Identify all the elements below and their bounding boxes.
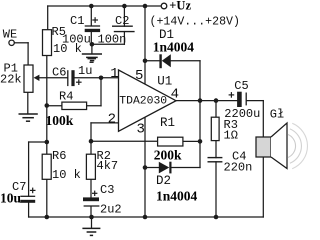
svg-text:10u: 10u (0, 190, 22, 205)
ground under P1 (19, 92, 38, 121)
svg-text:1n4004: 1n4004 (156, 188, 198, 203)
wire R1 right lead (183, 140, 200, 142)
junction inverting node (89, 139, 94, 144)
wire D1 left segment (145, 60, 160, 62)
svg-text:D2: D2 (156, 174, 171, 188)
wire C7 bottom lead (28, 203, 30, 217)
junction R1 right (198, 139, 203, 144)
capacitor C3 plates (electrolytic) (83, 197, 99, 206)
wire C7 branch horizontal (29, 141, 47, 143)
svg-text:1: 1 (110, 66, 118, 82)
wire inverting node run to R1 (91, 140, 158, 142)
wire C2 top lead (123, 6, 125, 26)
svg-text:WE: WE (3, 27, 17, 41)
wire R3 to C4 (215, 141, 217, 158)
resistor R4 (62, 102, 87, 109)
svg-text:2u2: 2u2 (100, 202, 122, 216)
svg-text:5: 5 (135, 68, 143, 84)
wire pin2 horizontal (91, 122, 119, 124)
diode D1 (1n4004) (159, 54, 170, 68)
svg-text:TDA2030: TDA2030 (119, 96, 167, 108)
capacitor C6 minus mark (88, 59, 97, 63)
svg-text:4: 4 (171, 87, 179, 103)
wire D1 right segment (171, 60, 200, 62)
input terminal WE (9, 40, 14, 45)
resistor R3 (211, 117, 219, 140)
resistor R6 (42, 154, 51, 179)
resistor R2 (86, 154, 95, 179)
wire pin2 down (90, 123, 92, 141)
capacitor C2 plates (112, 26, 135, 31)
wire output horizontal (176, 100, 237, 102)
wire R6 bottom to rail (46, 179, 48, 217)
junction output node (198, 98, 203, 103)
junction D1 anode (143, 59, 148, 64)
svg-text:R1: R1 (160, 116, 175, 130)
svg-text:1n4004: 1n4004 (153, 39, 195, 54)
svg-text:100k: 100k (46, 113, 74, 128)
wire R3 top lead (215, 101, 217, 118)
junction bias node (45, 140, 50, 145)
junction rail R6 (45, 215, 50, 220)
svg-text:22k: 22k (0, 72, 22, 86)
svg-text:C1: C1 (70, 14, 84, 28)
speaker G1 (256, 123, 307, 169)
potentiometer P1 wiper arrow (34, 75, 40, 81)
op-amp U1 TDA2030 triangle (119, 70, 177, 131)
svg-text:1Ω: 1Ω (224, 129, 238, 143)
svg-text:+Uz: +Uz (169, 0, 191, 13)
diode D2 (1n4004) (159, 162, 172, 174)
wire C5 to speaker (247, 100, 263, 102)
capacitor C7 plus sign (30, 188, 36, 194)
wire bottom ground rail (29, 216, 264, 218)
wire top supply rail (48, 5, 162, 7)
wire C1 top lead (90, 6, 92, 26)
junction rail C3 (89, 215, 94, 220)
wire C3 bottom lead (90, 206, 92, 217)
junction R4 left (45, 103, 50, 108)
capacitor C5 plates (electrolytic, horizontal) (237, 92, 246, 107)
wire C2 bottom lead (123, 32, 125, 45)
junction C2 top (122, 4, 127, 9)
junction pin5 rail (143, 4, 148, 9)
capacitor C1 plus sign (92, 17, 98, 23)
wire C6 to pin1 (74, 77, 118, 79)
svg-text:4k7: 4k7 (97, 159, 119, 173)
svg-text:220n: 220n (224, 160, 253, 174)
wire C4 bottom lead (215, 162, 217, 217)
ground under bottom rail (82, 217, 100, 235)
svg-text:(+14V...+28V): (+14V...+28V) (150, 15, 240, 28)
svg-text:3: 3 (137, 121, 145, 137)
wire pin1 node down (100, 78, 102, 106)
junction pin1 node (99, 76, 104, 81)
wire R5 top drop (47, 6, 49, 30)
svg-text:10 k: 10 k (52, 168, 81, 182)
junction D2 left (143, 165, 148, 170)
wire WE input down to P1 (27, 43, 29, 65)
capacitor C6 plates (electrolytic, horizontal) (68, 70, 75, 86)
svg-text:2: 2 (108, 111, 116, 127)
junction R3 top (214, 98, 219, 103)
wire output right vertical (199, 61, 201, 168)
wire speaker top vertical (262, 101, 264, 137)
wire P1 wiper run (39, 77, 68, 79)
resistor R1 (158, 137, 183, 146)
wire pin3 ground vertical (144, 117, 146, 217)
svg-text:100u: 100u (62, 32, 91, 46)
svg-text:200k: 200k (154, 147, 182, 162)
svg-text:R6: R6 (52, 149, 66, 163)
svg-text:1u: 1u (78, 64, 92, 78)
resistor R5 (43, 30, 52, 56)
wire C7 top lead (28, 142, 30, 196)
ground under C1/C2 (82, 44, 102, 60)
wire C1 bottom lead (90, 32, 92, 44)
capacitor C1 plates (electrolytic) (85, 26, 100, 32)
supply terminal +Uz (161, 3, 167, 9)
svg-text:C3: C3 (100, 183, 114, 197)
wire bias vertical R5 to R6 (46, 56, 48, 155)
capacitor C4 plates (208, 158, 223, 162)
junction C1 top (89, 4, 94, 9)
capacitor C7 plates (electrolytic) (20, 196, 35, 203)
wire R4 right lead (87, 105, 101, 107)
capacitor C6 plus sign (76, 79, 82, 85)
junction rail C4 (214, 215, 219, 220)
svg-text:C6: C6 (52, 66, 66, 80)
svg-text:R4: R4 (59, 89, 73, 103)
capacitor C5 plus sign (229, 92, 235, 98)
wire R2 top lead (90, 141, 92, 154)
wire R2 bottom to C3 (90, 179, 92, 197)
svg-text:C5: C5 (234, 79, 248, 93)
svg-text:Gł: Gł (270, 107, 284, 121)
potentiometer P1 body (24, 65, 33, 92)
wire WE input horizontal (14, 42, 28, 44)
wire D2 left segment (145, 167, 159, 169)
junction rail pin3 (143, 215, 148, 220)
junction C1/C2 ground (90, 42, 95, 47)
wire R4 left lead (47, 105, 62, 107)
capacitor C3 plus sign (92, 191, 97, 196)
wire speaker bottom vertical (262, 157, 264, 217)
svg-text:C2: C2 (115, 14, 129, 28)
wire D2 right segment (171, 167, 200, 169)
wire C1-C2 ground run (91, 43, 124, 45)
wire pin5 supply vertical (144, 6, 146, 84)
svg-text:100n: 100n (98, 32, 127, 46)
